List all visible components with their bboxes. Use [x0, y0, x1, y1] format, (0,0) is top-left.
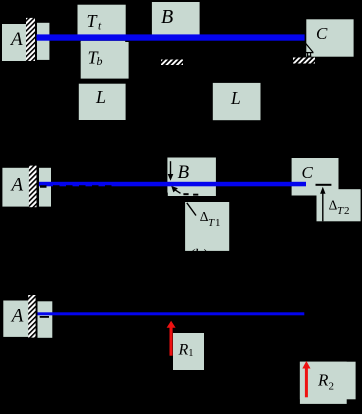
wall hatch at A (top): [26, 18, 35, 61]
svg-text:A: A: [10, 305, 24, 326]
svg-text:C: C: [316, 24, 328, 43]
wall line at A (middle): [37, 166, 39, 208]
dashed original-position line (middle left): [40, 185, 112, 187]
label box R1: [173, 333, 204, 370]
label box C (middle): [292, 158, 339, 196]
svg-text:L: L: [95, 87, 106, 107]
wall hatch at A (middle): [29, 166, 37, 208]
svg-text:T: T: [337, 205, 344, 217]
label box R2: [300, 362, 356, 404]
label box A (top): [2, 24, 36, 61]
label box A (bottom): [3, 301, 30, 337]
svg-text:A: A: [9, 29, 23, 50]
ground hatch under B (top): [161, 60, 183, 66]
black axis segment under beam left end: [40, 316, 49, 318]
label box Tb: [81, 41, 129, 79]
wall line at A (top): [35, 18, 37, 61]
svg-text:B: B: [178, 162, 190, 183]
svg-text:R: R: [317, 371, 329, 390]
up arrow Delta T2: [320, 187, 325, 222]
svg-text:T: T: [208, 217, 215, 229]
level tick at C (middle): [316, 184, 332, 186]
svg-text:B: B: [161, 6, 173, 28]
label box B (middle): [167, 158, 216, 197]
svg-text:L: L: [230, 88, 241, 108]
label box Delta T2: [317, 189, 361, 221]
svg-text:C: C: [302, 163, 314, 182]
label box C (top): [306, 19, 353, 56]
wall line at A (bottom): [36, 295, 38, 338]
svg-text:1: 1: [188, 348, 193, 359]
svg-text:(b): (b): [189, 247, 208, 264]
label box A (middle): [2, 168, 36, 207]
svg-text:R: R: [178, 341, 189, 358]
svg-text:1: 1: [215, 217, 221, 229]
svg-text:A: A: [10, 175, 24, 196]
leader arrow Delta T1 (points up-left to beam at B): [165, 186, 198, 196]
ground hatch under C (top): [293, 58, 315, 64]
beam (middle, blue): [39, 182, 306, 187]
support block right of wall (middle): [39, 168, 51, 207]
support block right of wall (top): [37, 23, 50, 60]
label box L (right): [213, 83, 261, 120]
svg-text:b: b: [97, 54, 103, 68]
support block right of wall (bottom): [38, 301, 53, 338]
label box Tt: [78, 5, 126, 36]
reaction arrow R1 (red, up): [167, 321, 176, 356]
roller triangle at C (top): [305, 42, 314, 56]
wall hatch at A (bottom): [28, 295, 36, 338]
label box Delta T1: [185, 202, 229, 251]
label box B (top): [152, 2, 200, 35]
svg-text:2: 2: [344, 205, 350, 217]
beam (bottom, thin blue): [38, 312, 305, 315]
down arrow at B (middle): [168, 161, 174, 181]
beam A-B-C (top, thick blue): [37, 34, 305, 40]
reaction arrow R2 (red, up): [302, 361, 310, 397]
label box L (left): [79, 84, 126, 120]
svg-text:2: 2: [329, 381, 335, 393]
